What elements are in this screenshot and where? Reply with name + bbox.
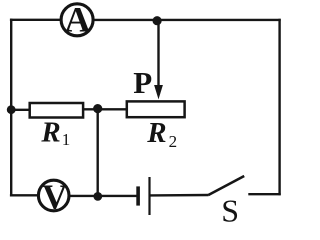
svg-text:S: S (221, 193, 239, 226)
wire left vertical (10, 19, 12, 197)
svg-text:R: R (40, 116, 60, 148)
wire voltmeter to battery (69, 195, 137, 197)
node left middle junction (7, 105, 16, 114)
ammeter U1 circle (61, 4, 93, 36)
wiper arrowhead (154, 85, 163, 99)
svg-text:R: R (146, 117, 166, 149)
svg-text:A: A (65, 0, 91, 40)
svg-text:P: P (133, 65, 152, 100)
wire top-right segment (93, 19, 281, 21)
wire right vertical (278, 19, 280, 196)
battery positive plate (long thin) (148, 177, 150, 215)
wire center vertical (96, 109, 98, 197)
battery negative plate (short thick) (136, 186, 140, 205)
resistor R2 (rheostat) (127, 101, 185, 117)
wire bottom-left (to voltmeter) (10, 194, 39, 196)
wire between R1 and R2 (84, 108, 128, 110)
svg-text:1: 1 (62, 130, 71, 149)
node bottom junction (93, 192, 102, 201)
wire switch contact to right corner (248, 193, 280, 195)
voltmeter U2 circle (38, 180, 69, 211)
node middle junction (93, 104, 102, 113)
svg-text:2: 2 (169, 132, 178, 151)
wire middle-left (to R1) (11, 109, 30, 111)
switch S blade (208, 176, 244, 195)
svg-text:V: V (42, 177, 67, 216)
wire battery to switch (150, 194, 208, 197)
node junction top (wiper tap) (153, 16, 162, 25)
wire top-left segment (10, 19, 61, 21)
resistor R1 (30, 103, 83, 118)
wire wiper vertical (157, 21, 159, 88)
